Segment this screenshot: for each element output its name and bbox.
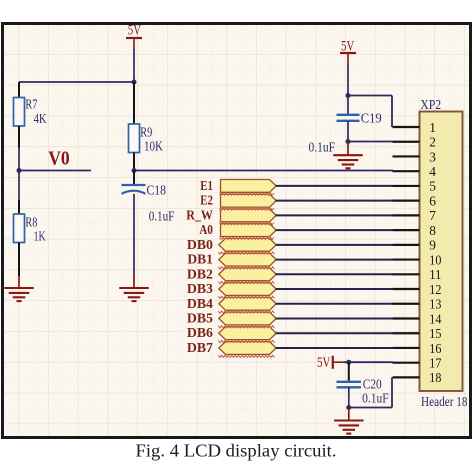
svg-text:DB6: DB6: [187, 325, 213, 340]
svg-text:11: 11: [429, 268, 441, 283]
svg-text:R7: R7: [25, 97, 37, 112]
svg-text:C19: C19: [361, 111, 382, 126]
svg-text:5V: 5V: [128, 22, 142, 38]
svg-text:A0: A0: [199, 222, 213, 237]
svg-text:10: 10: [429, 253, 441, 268]
svg-text:6: 6: [429, 194, 436, 209]
svg-text:5: 5: [429, 180, 436, 195]
svg-text:10K: 10K: [144, 139, 163, 154]
svg-text:R9: R9: [140, 124, 152, 139]
svg-text:1K: 1K: [34, 229, 46, 244]
svg-text:15: 15: [429, 327, 441, 342]
svg-text:E2: E2: [200, 193, 213, 208]
svg-text:3: 3: [429, 150, 436, 165]
svg-text:V0: V0: [48, 149, 69, 170]
svg-text:C20: C20: [363, 377, 382, 392]
svg-text:R_W: R_W: [186, 207, 213, 222]
svg-text:DB2: DB2: [187, 266, 213, 281]
svg-text:0.1uF: 0.1uF: [362, 391, 389, 406]
svg-text:0.1uF: 0.1uF: [309, 140, 336, 155]
svg-text:DB0: DB0: [187, 237, 213, 252]
svg-text:1: 1: [429, 121, 436, 136]
svg-text:DB4: DB4: [187, 296, 213, 311]
svg-text:4K: 4K: [34, 111, 47, 126]
svg-text:Fig. 4 LCD display circuit.: Fig. 4 LCD display circuit.: [136, 441, 337, 461]
svg-text:5V: 5V: [317, 355, 331, 371]
svg-text:2: 2: [429, 136, 436, 151]
svg-text:XP2: XP2: [420, 97, 441, 112]
svg-text:9: 9: [429, 239, 436, 254]
svg-text:R8: R8: [25, 215, 37, 230]
svg-text:0.1uF: 0.1uF: [149, 209, 175, 224]
svg-text:18: 18: [429, 371, 441, 386]
svg-text:Header 18: Header 18: [421, 394, 468, 409]
svg-text:8: 8: [429, 224, 436, 239]
svg-text:16: 16: [429, 342, 441, 357]
svg-text:7: 7: [429, 209, 436, 224]
svg-text:DB7: DB7: [187, 340, 213, 355]
svg-text:C18: C18: [147, 183, 167, 198]
svg-text:E1: E1: [200, 178, 213, 193]
svg-text:17: 17: [429, 356, 441, 371]
svg-text:13: 13: [429, 298, 441, 313]
svg-text:14: 14: [429, 312, 441, 327]
svg-text:DB3: DB3: [187, 281, 213, 296]
svg-text:4: 4: [429, 165, 436, 180]
svg-text:DB5: DB5: [187, 310, 213, 325]
svg-text:DB1: DB1: [187, 252, 213, 267]
svg-text:12: 12: [429, 283, 441, 298]
